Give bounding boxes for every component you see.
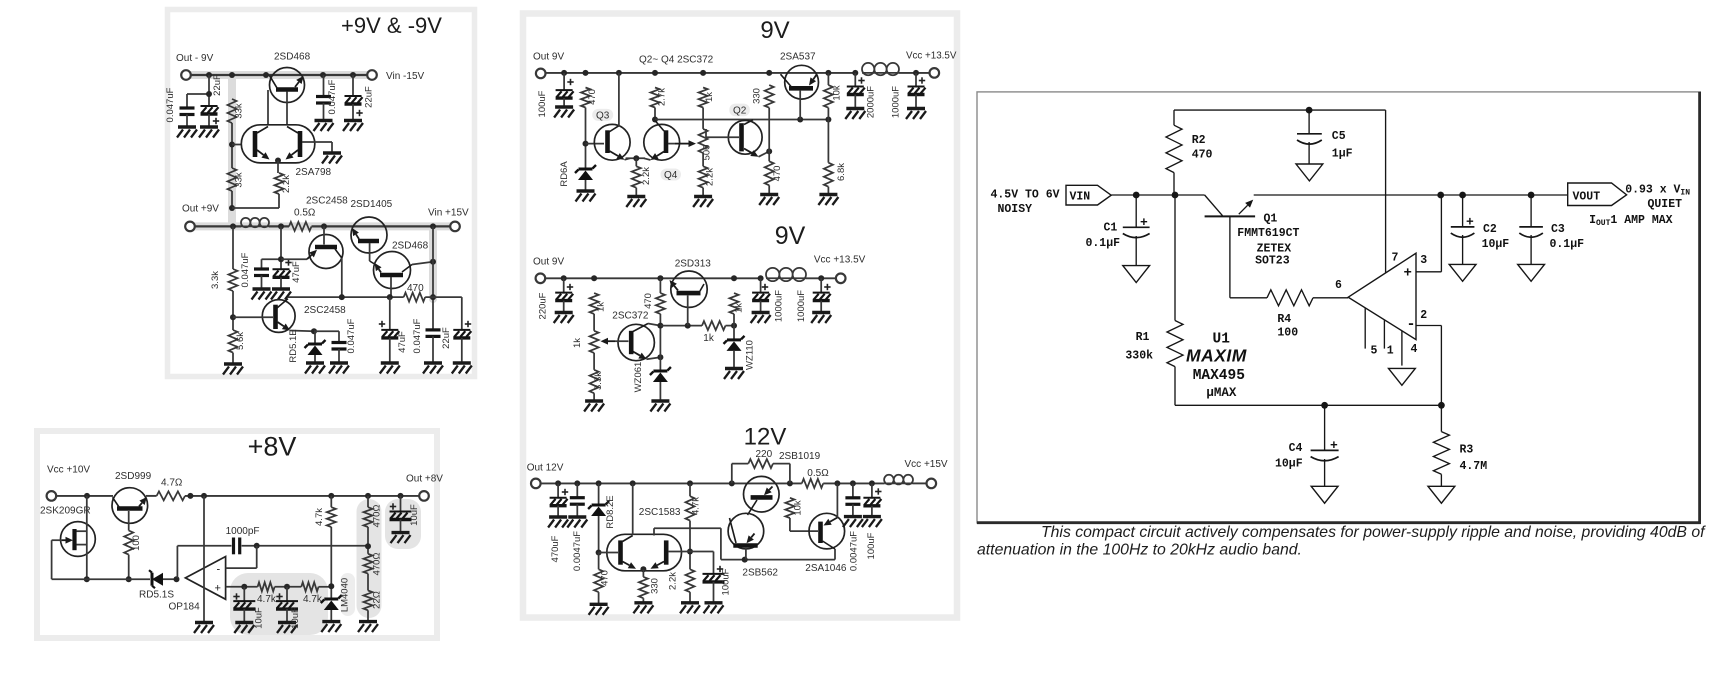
svg-text:330: 330	[752, 88, 763, 104]
svg-text:470: 470	[643, 293, 654, 309]
svg-text:0.1μF: 0.1μF	[1086, 237, 1121, 250]
svg-text:470: 470	[600, 570, 611, 586]
svg-text:2SC2458: 2SC2458	[306, 196, 348, 207]
svg-text:1: 1	[1387, 345, 1394, 358]
svg-text:470: 470	[772, 166, 783, 182]
svg-text:4.7Ω: 4.7Ω	[161, 478, 183, 489]
svg-text:Q3: Q3	[596, 110, 610, 121]
svg-text:Q1: Q1	[1264, 212, 1278, 225]
svg-text:+: +	[215, 583, 221, 595]
svg-text:6: 6	[1335, 279, 1342, 292]
svg-text:1000pF: 1000pF	[226, 526, 260, 537]
svg-text:1000uF: 1000uF	[891, 86, 902, 118]
svg-text:1k: 1k	[734, 303, 745, 313]
svg-text:4.7k: 4.7k	[257, 594, 277, 605]
svg-text:22uF: 22uF	[441, 327, 452, 349]
svg-text:1μF: 1μF	[1332, 147, 1353, 160]
svg-text:Out +8V: Out +8V	[406, 474, 443, 485]
svg-text:Q2~ Q4 2SC372: Q2~ Q4 2SC372	[639, 55, 714, 66]
svg-text:470: 470	[1192, 149, 1213, 162]
svg-text:2.2k: 2.2k	[641, 167, 652, 185]
svg-text:1k: 1k	[572, 338, 583, 348]
svg-text:+: +	[1404, 266, 1412, 282]
svg-text:VIN: VIN	[1070, 191, 1091, 204]
svg-text:2SC1583: 2SC1583	[639, 507, 681, 518]
svg-text:Out - 9V: Out - 9V	[176, 53, 214, 64]
svg-text:10μF: 10μF	[1275, 457, 1303, 470]
svg-text:100: 100	[1277, 327, 1298, 340]
svg-text:2SA798: 2SA798	[296, 167, 332, 178]
svg-text:QUIET: QUIET	[1648, 198, 1683, 211]
svg-text:2SD313: 2SD313	[675, 258, 712, 269]
svg-text:WZ110: WZ110	[745, 340, 756, 370]
svg-text:10uF: 10uF	[290, 607, 301, 629]
svg-text:10uF: 10uF	[409, 504, 420, 526]
svg-text:0.047uF: 0.047uF	[412, 318, 423, 353]
svg-text:12V: 12V	[744, 424, 787, 451]
svg-text:Out 12V: Out 12V	[527, 462, 564, 473]
svg-text:10k: 10k	[832, 85, 843, 101]
svg-text:10μF: 10μF	[1482, 238, 1510, 251]
svg-text:5: 5	[1371, 345, 1378, 358]
svg-text:R3: R3	[1460, 444, 1474, 457]
svg-text:2: 2	[1420, 309, 1427, 322]
svg-text:RD5.1S: RD5.1S	[139, 590, 174, 601]
svg-text:100: 100	[131, 535, 142, 551]
svg-text:μMAX: μMAX	[1206, 386, 1237, 400]
svg-text:470Ω: 470Ω	[372, 553, 383, 576]
svg-text:RD8.2E: RD8.2E	[605, 495, 616, 528]
svg-text:2SC372: 2SC372	[612, 310, 649, 321]
svg-text:RD5.1E: RD5.1E	[288, 329, 299, 362]
svg-text:Vcc +13.5V: Vcc +13.5V	[814, 255, 866, 266]
svg-text:22uF: 22uF	[364, 86, 375, 108]
svg-text:C1: C1	[1104, 222, 1118, 235]
svg-text:+8V: +8V	[248, 432, 297, 462]
svg-text:2SC2458: 2SC2458	[304, 305, 346, 316]
svg-text:2SB562: 2SB562	[742, 568, 778, 579]
svg-text:9V: 9V	[760, 17, 789, 44]
svg-text:10uF: 10uF	[254, 607, 265, 629]
svg-text:4.7k: 4.7k	[691, 497, 702, 515]
svg-text:3.3k: 3.3k	[210, 271, 221, 289]
svg-text:470: 470	[587, 89, 598, 105]
svg-text:Vin +15V: Vin +15V	[428, 208, 469, 219]
svg-text:OP184: OP184	[169, 602, 201, 613]
svg-text:0.5Ω: 0.5Ω	[294, 208, 316, 219]
svg-text:2SK209GR: 2SK209GR	[40, 506, 91, 517]
svg-text:FMMT619CT: FMMT619CT	[1237, 227, 1299, 240]
svg-text:+: +	[1140, 215, 1148, 230]
svg-text:100uF: 100uF	[866, 532, 877, 559]
svg-text:2SD1405: 2SD1405	[351, 199, 393, 210]
svg-text:0.0047uF: 0.0047uF	[848, 531, 859, 571]
svg-text:0.1μF: 0.1μF	[1550, 238, 1585, 251]
svg-text:0.0047uF: 0.0047uF	[572, 531, 583, 571]
svg-text:0.047uF: 0.047uF	[346, 318, 357, 353]
svg-text:+: +	[1330, 438, 1338, 453]
svg-text:SOT23: SOT23	[1255, 254, 1290, 267]
svg-text:Q4: Q4	[664, 170, 678, 181]
svg-text:47uF: 47uF	[291, 261, 302, 283]
svg-text:-: -	[217, 564, 221, 576]
svg-text:3: 3	[1420, 254, 1427, 267]
svg-text:+: +	[1466, 215, 1474, 230]
svg-text:Out +9V: Out +9V	[182, 204, 219, 215]
svg-text:C2: C2	[1483, 223, 1497, 236]
svg-text:attenuation in the 100Hz to 20: attenuation in the 100Hz to 20kHz audio …	[977, 542, 1302, 559]
svg-text:1000uF: 1000uF	[773, 290, 784, 322]
svg-text:1k: 1k	[596, 302, 607, 312]
svg-text:0.047uF: 0.047uF	[240, 252, 251, 287]
svg-text:RD6A: RD6A	[559, 161, 570, 187]
svg-text:-: -	[1407, 316, 1416, 333]
svg-text:1k: 1k	[704, 92, 715, 102]
svg-text:MAX495: MAX495	[1193, 368, 1245, 384]
svg-text:470Ω: 470Ω	[372, 505, 383, 528]
svg-text:9V: 9V	[775, 222, 806, 250]
svg-text:2.2k: 2.2k	[281, 175, 292, 193]
svg-text:7: 7	[1392, 252, 1399, 265]
svg-text:2SD468: 2SD468	[274, 52, 311, 63]
svg-text:2000uF: 2000uF	[866, 86, 877, 118]
svg-text:C3: C3	[1551, 223, 1565, 236]
svg-text:330: 330	[650, 578, 661, 594]
svg-text:4: 4	[1411, 343, 1418, 356]
svg-text:2.2k: 2.2k	[705, 168, 716, 186]
svg-text:2SA537: 2SA537	[780, 52, 816, 63]
svg-text:Vcc +13.5V: Vcc +13.5V	[906, 51, 957, 62]
svg-text:This compact circuit actively: This compact circuit actively compensate…	[1041, 524, 1706, 541]
svg-text:Vcc +10V: Vcc +10V	[47, 465, 90, 476]
svg-text:0.047uF: 0.047uF	[327, 79, 338, 114]
svg-text:WZ061: WZ061	[633, 362, 644, 393]
svg-text:1000uF: 1000uF	[796, 290, 807, 322]
svg-text:Out 9V: Out 9V	[533, 52, 564, 63]
svg-text:22Ω: 22Ω	[372, 591, 383, 609]
svg-text:4.7k: 4.7k	[314, 508, 325, 526]
svg-text:1k: 1k	[703, 333, 715, 344]
svg-text:2SD468: 2SD468	[392, 241, 429, 252]
svg-text:22uF: 22uF	[212, 74, 223, 96]
svg-text:2SB1019: 2SB1019	[779, 451, 821, 462]
svg-text:Q2: Q2	[733, 105, 747, 116]
svg-text:LM4040: LM4040	[340, 578, 351, 612]
svg-text:0.047uF: 0.047uF	[165, 87, 176, 122]
svg-text:100uF: 100uF	[721, 568, 732, 595]
svg-text:2SD999: 2SD999	[115, 471, 152, 482]
svg-text:470uF: 470uF	[550, 535, 561, 562]
svg-text:R4: R4	[1277, 313, 1291, 326]
svg-text:4.7M: 4.7M	[1460, 460, 1488, 473]
svg-text:Out 9V: Out 9V	[533, 257, 564, 268]
svg-text:+9V & -9V: +9V & -9V	[341, 13, 442, 38]
svg-text:4.7k: 4.7k	[303, 594, 323, 605]
svg-text:5.6k: 5.6k	[235, 332, 246, 350]
svg-text:NOISY: NOISY	[998, 203, 1033, 216]
svg-text:100uF: 100uF	[537, 90, 548, 117]
svg-text:6.8k: 6.8k	[836, 163, 847, 181]
svg-text:VOUT: VOUT	[1573, 191, 1601, 204]
svg-text:2.7k: 2.7k	[657, 88, 668, 106]
svg-text:2.2k: 2.2k	[668, 572, 679, 590]
svg-text:MAXIM: MAXIM	[1186, 346, 1247, 366]
svg-text:Vcc +15V: Vcc +15V	[905, 459, 948, 470]
svg-text:33k: 33k	[234, 103, 245, 119]
svg-text:470: 470	[407, 283, 424, 294]
svg-text:C5: C5	[1332, 130, 1346, 143]
svg-text:2SA1046: 2SA1046	[805, 563, 847, 574]
svg-text:R1: R1	[1136, 331, 1150, 344]
svg-text:330k: 330k	[1125, 350, 1153, 363]
svg-text:33k: 33k	[234, 172, 245, 188]
svg-text:3.3k: 3.3k	[593, 372, 604, 390]
svg-text:4.5V TO 6V: 4.5V TO 6V	[991, 189, 1060, 202]
svg-text:10k: 10k	[793, 500, 804, 516]
svg-text:C4: C4	[1289, 442, 1303, 455]
svg-text:Vin -15V: Vin -15V	[386, 71, 425, 82]
svg-text:220uF: 220uF	[538, 292, 549, 319]
svg-text:47uF: 47uF	[397, 331, 408, 353]
svg-text:R2: R2	[1192, 134, 1206, 147]
